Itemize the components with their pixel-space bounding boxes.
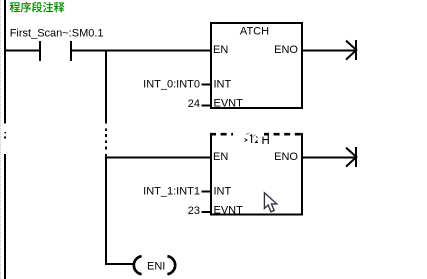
block2 garbled title fragment: T remnant [250,135,252,143]
arrow1 terminal bar [355,40,357,60]
svg-text:INT_1:INT1: INT_1:INT1 [143,186,200,198]
left power rail break dot 1 [5,132,7,134]
block2 EVNT pin stub [202,211,211,213]
arrow2 head [346,148,356,167]
svg-text:INT: INT [214,186,232,198]
contact First_Scan~:SM0.1 left bar [39,41,41,61]
ENI coil right parenthesis [167,256,175,274]
left window margin dotted line [0,0,2,279]
block2 garbled title fragment: A remnant [245,139,248,142]
branch vertical wire lower [105,154,107,265]
svg-text:INT: INT [214,79,232,91]
svg-text:EN: EN [213,44,228,56]
wire: branch to block2 EN (rung 2) [105,156,211,158]
block2 right border [301,133,303,216]
svg-text:First_Scan~:SM0.1: First_Scan~:SM0.1 [10,27,104,39]
block2 INT pin stub [202,191,211,193]
left power rail lower segment [4,154,6,279]
wire: rail to contact [6,50,39,52]
block1 ENO output wire [303,50,355,52]
svg-text:INT_0:INT0: INT_0:INT0 [143,79,200,91]
block2 ENO output wire [303,156,355,158]
block2 garbled title fragment: C remnant [256,137,259,143]
block1 ATCH box outline [211,23,302,108]
svg-text:ATCH: ATCH [240,26,269,38]
branch break dash 4 [105,147,107,150]
branch break dash 1 [105,129,107,132]
svg-text:24: 24 [188,98,200,110]
block1 EVNT pin stub [202,104,211,106]
branch break dash 2 [105,134,107,137]
arrow1 head [346,41,356,60]
block2 bottom border [210,214,303,216]
ENI coil left parenthesis [134,256,142,274]
svg-text:ENO: ENO [274,151,298,163]
svg-text:EN: EN [213,151,228,163]
contact First_Scan~:SM0.1 right bar [70,41,72,61]
wire: contact to block1 EN [72,50,211,52]
block2 garbled title fragment: H remnant [263,135,268,144]
block2 selection marquee dashed top border [210,133,303,136]
left power rail break dot 2 [4,136,6,138]
block2 left border [210,133,212,216]
network comment text (green CJK) [10,2,65,13]
svg-text:EVNT: EVNT [214,98,244,110]
left power rail upper segment [4,0,6,124]
white patch clearing marquee over title zone [233,131,264,137]
block2 faint marquee remnants over title [246,133,256,137]
mouse cursor [264,193,276,212]
wire: bottom rung to ENI coil [105,263,133,265]
arrow2 terminal bar [355,147,357,167]
svg-text:23: 23 [188,205,200,217]
svg-text:ENO: ENO [274,44,298,56]
branch vertical wire upper [105,50,107,124]
branch break dash 3 [105,140,107,143]
svg-text:EVNT: EVNT [214,205,244,217]
block1 INT pin stub [202,84,211,86]
svg-text:ENI: ENI [147,260,165,272]
